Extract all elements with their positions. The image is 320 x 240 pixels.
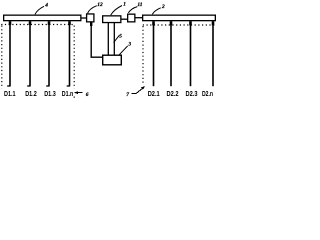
- svg-text:12: 12: [97, 2, 103, 8]
- sensor line D1.3: [46, 21, 49, 86]
- box 11: [128, 14, 135, 22]
- svg-text:3: 3: [127, 42, 131, 48]
- label 4 leader: [35, 6, 44, 14]
- double wire box1 to box3 (left): [107, 23, 109, 55]
- wire box11 to bar 2: [135, 17, 143, 19]
- label 1 leader: [111, 6, 122, 16]
- label 3 leader: [119, 46, 128, 55]
- label 12 leader: [88, 6, 97, 14]
- box 1: [103, 16, 121, 23]
- sensor line D1.2: [27, 21, 30, 86]
- label 7 arrow: [131, 86, 145, 93]
- dotted zone line vertical x143 (zone 7 boundary): [142, 26, 144, 85]
- svg-text:D2.3: D2.3: [186, 89, 198, 98]
- svg-text:6: 6: [86, 92, 89, 98]
- dotted zone line horizontal left: [1, 24, 74, 26]
- bar 4 (left sensor rail): [4, 15, 81, 21]
- label 2 leader: [152, 8, 160, 14]
- svg-text:D1.1: D1.1: [4, 89, 16, 98]
- label 6 arrow: [74, 91, 83, 94]
- wire box1 to box11: [121, 18, 127, 20]
- svg-text:D1.3: D1.3: [44, 89, 56, 98]
- double wire box1 to box3 (right): [113, 23, 115, 55]
- dotted zone line vertical far-left: [1, 26, 3, 89]
- svg-text:7: 7: [126, 92, 129, 98]
- stub under box 12: [90, 22, 92, 26]
- sensor line D2.3: [190, 21, 192, 86]
- sensor line D2.1: [153, 21, 155, 86]
- svg-text:D2.1: D2.1: [148, 89, 160, 98]
- bar 2 (right sensor rail): [143, 15, 216, 21]
- dotted zone line horizontal right: [143, 24, 215, 26]
- svg-text:1: 1: [123, 2, 126, 8]
- box 3: [103, 55, 122, 65]
- svg-text:5: 5: [119, 33, 122, 39]
- label 5 leader: [114, 35, 120, 42]
- wire from box12 down to box3 (L shape): [91, 22, 102, 57]
- sensor line D2.n: [212, 21, 214, 86]
- sensor line D1.n: [67, 21, 70, 86]
- svg-text:4: 4: [44, 3, 48, 9]
- sensor line D2.2: [170, 21, 172, 86]
- svg-text:D2.n: D2.n: [202, 89, 213, 98]
- label 11 leader: [128, 7, 137, 13]
- wire bar4 to box 12: [81, 17, 86, 19]
- sensor line D1.1: [7, 21, 10, 86]
- box 12: [87, 14, 94, 22]
- svg-text:11: 11: [137, 2, 142, 8]
- dotted zone line vertical x74 (zone 6 boundary): [73, 26, 75, 101]
- svg-text:D1.n: D1.n: [62, 89, 74, 98]
- svg-text:D2.2: D2.2: [167, 89, 179, 98]
- svg-text:2: 2: [161, 4, 165, 10]
- svg-text:D1.2: D1.2: [25, 89, 37, 98]
